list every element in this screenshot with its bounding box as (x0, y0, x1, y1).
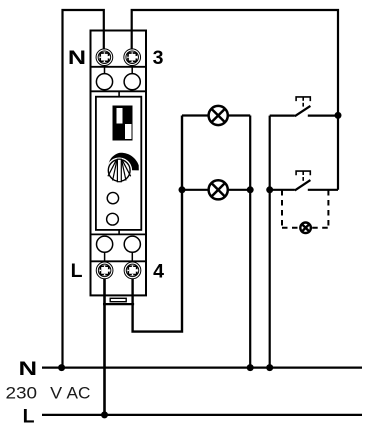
junction dot N bus / push button rail (266, 364, 273, 371)
glow lamp in push button (300, 223, 311, 234)
junction dot N bus / lamp rail (247, 364, 254, 371)
push button S1 contact arm (295, 106, 311, 116)
divider below top screws (91, 66, 147, 68)
inner front panel (96, 97, 141, 230)
lamp E1 leads (182, 114, 250, 116)
dashed link right of glow lamp (327, 190, 329, 228)
LED indicator circle upper (107, 192, 118, 203)
wire entry circle above terminal L (97, 236, 113, 261)
push button S2 contact arm (295, 180, 311, 190)
junction dot lamp E2 left (179, 186, 186, 193)
push button S1 actuator cap (296, 97, 310, 107)
junction dot lamp E2 right (247, 186, 254, 193)
screw terminal 3 (124, 49, 141, 66)
divider above inner panel (91, 90, 147, 92)
wire from terminal 4 down then right and up to lamp rail (133, 116, 182, 332)
divider above bottom screws (91, 260, 147, 262)
wire from terminal 3 over the top to push buttons (132, 10, 338, 190)
lamp E2 (209, 180, 228, 199)
junction dot L bus / terminal L wire (101, 411, 108, 418)
svg-text:L: L (23, 405, 35, 427)
push button S2 leads (270, 189, 338, 191)
junction dot N bus / feed wire (58, 364, 65, 371)
wire entry circle above terminal 4 (124, 236, 140, 261)
wire entry circle below terminal 3 (124, 67, 140, 92)
center tick above inner panel (118, 91, 120, 96)
svg-text:3: 3 (153, 47, 164, 69)
push button rail down to N bus (269, 116, 271, 368)
svg-text:N: N (19, 358, 38, 380)
timer module body outline (91, 31, 147, 296)
center tick below inner panel (118, 230, 120, 235)
svg-text:N: N (68, 47, 86, 69)
rotary time dial knob (108, 153, 139, 182)
lamp E1 (209, 106, 228, 125)
DIP switch block (113, 106, 133, 141)
LED indicator circle lower (107, 213, 119, 225)
N bus line (42, 367, 362, 369)
DIN rail clip below module (103, 298, 134, 304)
lamp E2 leads (182, 189, 250, 191)
screw terminal 4 (124, 262, 141, 279)
junction dot push button S2 left (266, 186, 273, 193)
svg-text:4: 4 (153, 260, 164, 282)
dashed link left of glow lamp (281, 190, 283, 228)
dashed lead into glow lamp right (312, 227, 328, 229)
screw terminal N (96, 49, 113, 66)
junction dot push button S1 right (335, 112, 342, 119)
wire from N bus up and over to terminal N (63, 10, 104, 368)
wire entry circle below terminal N (96, 67, 112, 92)
svg-text:AC: AC (67, 385, 91, 403)
push button S2 actuator cap (296, 171, 310, 181)
divider below inner panel (91, 233, 147, 235)
push button S1 leads (270, 114, 338, 116)
svg-text:230: 230 (6, 385, 38, 403)
L bus line (42, 414, 362, 416)
wire from terminal L down to L bus (103, 279, 106, 415)
dashed lead into glow lamp left (282, 227, 299, 229)
screw terminal L (96, 262, 113, 279)
svg-text:V: V (50, 385, 62, 403)
svg-text:L: L (71, 260, 83, 282)
lamp feed rail right side (249, 116, 251, 368)
